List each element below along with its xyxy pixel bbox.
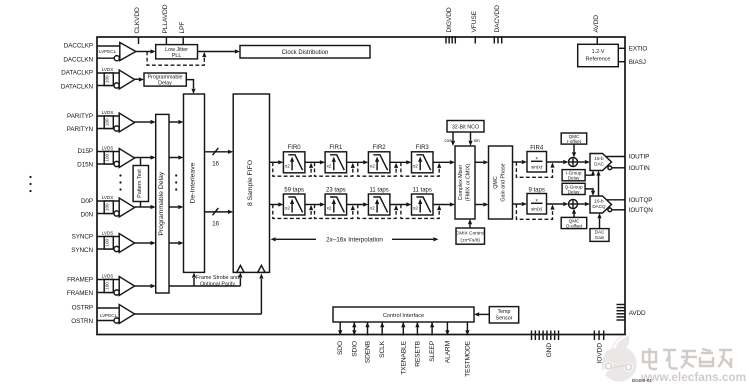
svg-text:1.2-V: 1.2-V — [592, 49, 605, 55]
PLL bypass dashed — [147, 52, 206, 66]
watermark chinese text — [643, 348, 732, 369]
svg-text:SYNCN: SYNCN — [71, 247, 93, 254]
svg-text:LVDS: LVDS — [102, 195, 114, 200]
svg-text:x2: x2 — [285, 164, 290, 169]
filter FIR2 interpolating — [368, 145, 390, 173]
svg-text:SDENB: SDENB — [365, 340, 372, 363]
svg-text:OSTRP: OSTRP — [72, 305, 93, 312]
svg-text:Programmable Delay: Programmable Delay — [158, 171, 165, 235]
wire 9taps to adder Q — [547, 202, 569, 206]
svg-text:Sensor: Sensor — [496, 316, 513, 322]
wire after FIR3 — [433, 160, 455, 164]
svg-text:DIGVDD: DIGVDD — [446, 7, 453, 32]
svg-text:D15P: D15P — [78, 148, 93, 155]
svg-text:Gain: Gain — [595, 235, 605, 240]
FIFO read clock triangle — [258, 265, 265, 272]
pin DIGVDD — [446, 7, 455, 43]
wire DATACLK delay to De-Interleave clock — [186, 80, 195, 94]
block Low Jitter PLL — [156, 45, 198, 59]
pin SLEEP — [429, 322, 436, 362]
svg-text:LVDS: LVDS — [102, 146, 114, 151]
bus 16 lower De-Interleave to FIFO — [205, 208, 234, 228]
wires Programmable Delay to De-Interleave — [169, 120, 184, 245]
wire DAC Gain to DAC Q — [597, 213, 601, 229]
svg-text:VFUSE: VFUSE — [471, 10, 478, 32]
wire SYNC to Programmable Delay — [135, 241, 156, 245]
svg-text:BIASJ: BIASJ — [629, 59, 646, 66]
wire mixer to QMC lower — [475, 202, 489, 206]
svg-text:sin(x): sin(x) — [531, 207, 543, 212]
svg-text:SCLK: SCLK — [379, 340, 386, 358]
pin ALARM — [444, 322, 451, 363]
buffer U5 LVDS D0 — [97, 195, 135, 217]
svg-text:Programmable: Programmable — [147, 74, 182, 80]
svg-text:DACCLKP: DACCLKP — [64, 43, 93, 50]
pin PLLAVDD — [162, 4, 169, 44]
svg-text:FIR2: FIR2 — [373, 145, 387, 151]
filter 9 taps x/sin(x) — [527, 187, 547, 214]
block QMC Gain and Phase — [489, 146, 513, 219]
wire NCO sin — [468, 132, 480, 146]
svg-text:Control Interface: Control Interface — [383, 313, 424, 319]
bypass dashed 59 taps lower — [273, 205, 313, 219]
wire adder Q to DAC Q — [578, 202, 591, 206]
svg-text:PARITYN: PARITYN — [67, 126, 94, 133]
filter FIR3 interpolating — [412, 145, 434, 173]
wire IOUTQP — [607, 199, 626, 201]
svg-text:Clock Distribution: Clock Distribution — [282, 50, 329, 56]
svg-text:Temp: Temp — [497, 309, 510, 315]
wire OSTR to FIFO read clock — [135, 273, 264, 314]
wire after FIR2 — [390, 160, 412, 164]
svg-text:x2: x2 — [327, 206, 332, 211]
wire PARITY to Programmable Delay — [135, 120, 156, 124]
bypass dashed FIR0 — [273, 162, 313, 176]
bypass dashed 23 taps lower — [315, 205, 355, 219]
wire Temp Sensor to Control Interface — [474, 312, 489, 316]
svg-text:x2: x2 — [370, 206, 375, 211]
svg-text:16: 16 — [212, 161, 219, 168]
wire FIFO to FIR0 — [270, 160, 284, 164]
pin SCLK — [379, 322, 386, 358]
block Programmable Delay (DATACLK) — [144, 73, 186, 87]
wire after 23 taps lower — [347, 202, 369, 206]
wire DACCLK to PLL — [136, 49, 156, 53]
wire after 11 taps lower — [433, 202, 455, 206]
block Clock Distribution — [240, 46, 370, 59]
wire QMC I-offset to adder — [572, 144, 576, 157]
wire gain DACQ to DAC I — [596, 170, 600, 196]
svg-text:x2: x2 — [370, 164, 375, 169]
bypass dashed FIR4 — [516, 162, 554, 177]
wire mixer to QMC upper — [475, 160, 489, 164]
svg-text:11 taps: 11 taps — [413, 187, 432, 193]
block De-Interleave — [184, 94, 205, 272]
svg-text:Delay: Delay — [158, 81, 172, 87]
svg-text:De-Interleave: De-Interleave — [190, 162, 197, 203]
filter FIR1 interpolating — [325, 145, 347, 173]
bypass dashed 11 taps lower — [401, 205, 441, 219]
watermark elecfans logo — [601, 334, 637, 382]
svg-text:16: 16 — [212, 221, 219, 228]
pin RESETB — [414, 322, 421, 367]
pin VFUSE — [471, 10, 478, 43]
wire D0 to Programmable Delay — [135, 205, 156, 209]
svg-text:AVDD: AVDD — [593, 15, 600, 33]
svg-text:16-b: 16-b — [594, 156, 604, 161]
svg-text:11 taps: 11 taps — [370, 187, 389, 193]
svg-text:PLL: PLL — [172, 53, 182, 59]
svg-text:Reference: Reference — [586, 57, 611, 63]
svg-text:ALARM: ALARM — [444, 341, 451, 363]
pin GND ticks — [532, 331, 559, 341]
pin SDO — [337, 322, 344, 355]
svg-text:QMC: QMC — [493, 176, 499, 189]
svg-text:www.elecfans.com: www.elecfans.com — [640, 370, 746, 384]
svg-text:100: 100 — [105, 238, 110, 246]
wire I-Group Delay to DAC I — [585, 170, 595, 175]
filter 23 taps lower — [325, 187, 347, 215]
svg-text:D0P: D0P — [81, 198, 93, 205]
wire NCO cos — [444, 132, 455, 146]
pin BIASJ — [618, 59, 646, 66]
wire FRAME to Programmable Delay — [135, 284, 156, 288]
block Q-Group Delay — [562, 183, 585, 194]
pin IOVDD ticks — [594, 331, 603, 341]
buffer U3 LVDS PARITY — [97, 110, 135, 132]
svg-text:GND: GND — [546, 343, 553, 358]
block Control Interface — [333, 307, 474, 322]
bypass dashed 9taps — [516, 204, 554, 219]
bus 16 upper De-Interleave to FIFO — [205, 148, 234, 168]
pin SDIO — [351, 322, 358, 357]
wire QMC Q-offset to adder Q — [572, 209, 576, 218]
svg-text:LVDS: LVDS — [102, 274, 114, 279]
svg-text:D0N: D0N — [81, 211, 94, 218]
pin LPF — [179, 22, 186, 45]
wire QMC to 9taps — [513, 202, 528, 206]
block CMIX Control — [456, 228, 485, 244]
svg-text:9 taps: 9 taps — [529, 187, 545, 193]
svg-text:AVDD: AVDD — [629, 310, 646, 317]
svg-text:Delay: Delay — [568, 176, 580, 181]
bypass dashed FIR3 — [401, 162, 441, 176]
svg-text:IOUTIP: IOUTIP — [629, 154, 650, 161]
svg-text:Gain and Phase: Gain and Phase — [501, 163, 507, 201]
svg-text:2x–16x Interpolation: 2x–16x Interpolation — [326, 236, 383, 243]
wire DATACLK to Programmable Delay — [135, 77, 144, 81]
adder Q sum junction — [569, 200, 578, 209]
block Temp Sensor — [489, 307, 518, 323]
svg-text:CLKVDD: CLKVDD — [134, 7, 141, 33]
svg-text:sin(x): sin(x) — [531, 165, 543, 170]
DAC I 16-b — [590, 154, 612, 171]
svg-text:SDO: SDO — [337, 341, 344, 355]
pin DACVDD — [494, 5, 502, 44]
pin EXTIO — [618, 45, 647, 52]
pin AVDD right ticks — [617, 305, 626, 321]
wire Q-Group Delay to DAC Q — [585, 189, 595, 196]
svg-text:(±n*Fs/8): (±n*Fs/8) — [460, 237, 480, 243]
svg-text:DACCLKN: DACCLKN — [63, 57, 93, 64]
wire after 59 taps lower — [305, 202, 325, 206]
svg-text:100: 100 — [105, 75, 110, 83]
pin CLKVDD — [134, 7, 141, 44]
chip boundary — [97, 37, 625, 335]
label 2x-16x Interpolation arrow — [271, 236, 439, 243]
block DAC Gain — [590, 229, 609, 242]
svg-text:LVPECL: LVPECL — [99, 49, 117, 54]
wire CMIX Control to mixer — [468, 219, 472, 228]
block 8 Sample FIFO — [233, 94, 269, 272]
svg-text:SYNCP: SYNCP — [72, 234, 93, 241]
svg-text:FRAMEP: FRAMEP — [67, 277, 93, 284]
svg-text:I-offset: I-offset — [567, 139, 582, 144]
svg-text:LPF: LPF — [179, 22, 186, 34]
svg-text:x2: x2 — [413, 164, 418, 169]
svg-text:100: 100 — [105, 282, 110, 290]
buffer U6 LVDS SYNC — [97, 231, 135, 253]
buffer U8 LVPECL OSTR — [97, 305, 135, 324]
svg-text:LVDS: LVDS — [102, 110, 114, 115]
wire after 11 taps lower — [390, 202, 412, 206]
svg-text:IOUTIN: IOUTIN — [629, 165, 650, 172]
svg-text:100: 100 — [105, 118, 110, 126]
svg-text:LVDS: LVDS — [102, 231, 114, 236]
svg-text:Pattern Test: Pattern Test — [137, 169, 143, 198]
svg-text:RESETB: RESETB — [414, 340, 421, 366]
wire IOUTIP — [607, 156, 626, 158]
wire IOUTQN with bubble — [608, 208, 625, 212]
svg-text:FIR3: FIR3 — [416, 145, 430, 151]
pin AVDD top — [593, 15, 600, 45]
block I-Group Delay — [562, 170, 585, 181]
svg-text:IOUTQN: IOUTQN — [629, 207, 654, 214]
buffer U1 LVPECL DACCLK — [97, 43, 136, 61]
block QMC Q-offset — [561, 217, 587, 228]
wire FIFO to 59taps — [270, 202, 284, 206]
svg-text:sin: sin — [474, 138, 480, 143]
svg-text:TXENABLE: TXENABLE — [400, 340, 407, 374]
svg-text:x2: x2 — [327, 164, 332, 169]
wire after FIR1 — [347, 160, 369, 164]
FIFO write clock triangle — [237, 265, 244, 272]
pin TXENABLE — [400, 322, 407, 375]
pin TESTMODE — [464, 322, 471, 377]
buffer U4 LVDS D15 — [97, 146, 135, 168]
wire after FIR0 — [305, 160, 325, 164]
svg-text:D15N: D15N — [77, 162, 93, 169]
bypass dashed FIR1 — [315, 162, 355, 176]
svg-text:TESTMODE: TESTMODE — [464, 340, 471, 377]
svg-text:DATACLKN: DATACLKN — [61, 84, 94, 91]
wire IOUTIN with bubble — [608, 166, 625, 170]
svg-text:DAC: DAC — [594, 161, 604, 166]
svg-text:IOUTQP: IOUTQP — [629, 197, 653, 204]
wire adder I to DAC — [578, 160, 591, 164]
filter FIR4 x/sin(x) — [527, 145, 547, 172]
buffer U7 LVDS FRAME — [97, 274, 135, 296]
svg-text:16-b: 16-b — [594, 198, 604, 203]
svg-text:FRAMEN: FRAMEN — [67, 290, 94, 297]
filter 59 taps lower — [283, 187, 305, 215]
svg-text:100: 100 — [105, 203, 110, 211]
wire D15 to Programmable Delay — [135, 155, 156, 159]
bypass dashed FIR2 — [358, 162, 398, 176]
svg-text:PLLAVDD: PLLAVDD — [162, 4, 169, 33]
wire PLL to Clock Distribution — [198, 49, 241, 53]
svg-text:Frame Strobe and: Frame Strobe and — [196, 275, 239, 281]
block QMC I-offset — [561, 133, 587, 144]
svg-text:DATACLKP: DATACLKP — [61, 70, 93, 77]
svg-text:32-Bit NCO: 32-Bit NCO — [452, 124, 479, 130]
svg-text:23 taps: 23 taps — [326, 187, 346, 193]
block Pattern Test — [133, 158, 148, 208]
svg-text:FIR4: FIR4 — [530, 145, 544, 151]
bypass dashed 11 taps lower — [358, 205, 398, 219]
block 1.2-V Reference — [578, 44, 619, 66]
wire QMC to FIR4 — [513, 160, 528, 164]
svg-text:SDIO: SDIO — [351, 341, 358, 357]
svg-text:B0450-01: B0450-01 — [632, 378, 652, 383]
svg-text:Delay: Delay — [568, 189, 580, 194]
ellipsis buffers — [119, 174, 121, 190]
svg-text:(FMIX or CMIX): (FMIX or CMIX) — [465, 164, 471, 202]
svg-text:EXTIO: EXTIO — [629, 45, 648, 52]
svg-text:cos: cos — [444, 138, 452, 143]
svg-text:DACVDD: DACVDD — [494, 5, 501, 33]
svg-text:100: 100 — [105, 153, 110, 161]
svg-text:FIR1: FIR1 — [329, 145, 343, 151]
svg-text:FIR0: FIR0 — [288, 145, 302, 151]
ellipsis delayed data — [175, 174, 177, 190]
block Complex Mixer — [455, 146, 475, 219]
adder I sum junction — [569, 158, 578, 167]
svg-text:IOVDD: IOVDD — [597, 343, 604, 364]
svg-text:SLEEP: SLEEP — [429, 340, 436, 361]
label Frame Strobe and Optional Parity — [196, 275, 239, 287]
buffer U2 LVDS DATACLK — [97, 67, 135, 89]
wire FIR4 to adder I — [547, 160, 569, 164]
svg-text:LVPECL: LVPECL — [100, 313, 118, 318]
svg-text:OSTRN: OSTRN — [71, 318, 93, 325]
filter 11 taps lower — [368, 187, 390, 215]
svg-text:PARITYP: PARITYP — [67, 113, 93, 120]
block Programmable Delay (data) — [156, 114, 169, 293]
DAC Q 16-b — [590, 196, 612, 213]
svg-text:LVDS: LVDS — [102, 67, 114, 72]
svg-text:Optional Parity: Optional Parity — [200, 281, 235, 287]
ellipsis input labels — [29, 176, 31, 192]
svg-text:x2: x2 — [285, 206, 290, 211]
svg-text:8 Sample FIFO: 8 Sample FIFO — [247, 160, 254, 206]
svg-text:DACQ: DACQ — [592, 204, 606, 209]
svg-text:59 taps: 59 taps — [284, 187, 304, 193]
block 32-Bit NCO — [447, 121, 484, 133]
svg-text:Complex Mixer: Complex Mixer — [458, 164, 464, 200]
pin SDENB — [365, 322, 372, 363]
filter FIR0 interpolating — [283, 145, 305, 173]
svg-text:CMIX Control: CMIX Control — [456, 231, 485, 237]
filter 11 taps lower — [412, 187, 434, 215]
wire FRAME strobe to De-Interleave and FIFO — [169, 272, 242, 286]
svg-text:Q-offset: Q-offset — [566, 223, 583, 228]
svg-text:x2: x2 — [413, 206, 418, 211]
